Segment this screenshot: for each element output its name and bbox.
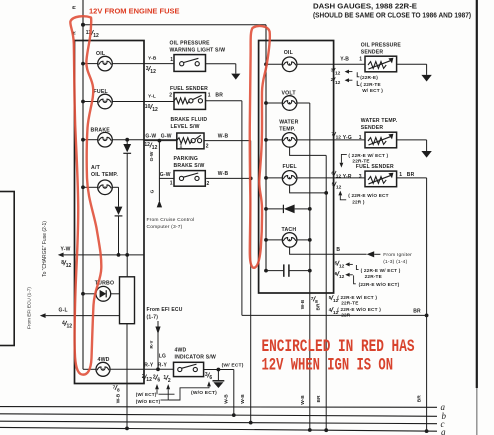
svg-text:OIL: OIL (284, 50, 294, 56)
gauge FUEL (right cluster) (282, 164, 297, 185)
svg-text:OIL: OIL (96, 51, 106, 57)
arrow from cruise control computer (157, 200, 162, 207)
wire bus to oil gauge (83, 63, 98, 65)
svg-text:4WD: 4WD (175, 347, 187, 353)
wire water temp sender to ground (397, 140, 427, 151)
bus line b (0, 411, 447, 421)
node bus-oil (81, 62, 85, 66)
wire (W/O ECT) option arrow to pin 1/2 (161, 384, 171, 400)
svg-text:12: 12 (335, 80, 341, 86)
svg-text:SENDER: SENDER (361, 50, 384, 56)
svg-text:12: 12 (336, 174, 342, 180)
svg-text:R-Y: R-Y (149, 340, 155, 349)
gauge OIL (right cluster) (282, 50, 297, 72)
svg-text:g: g (441, 427, 446, 435)
gauge VOLT (282, 91, 297, 111)
label G rotated (150, 189, 156, 193)
pin label 2/12 (142, 374, 152, 383)
pin label 2/12 with 22R-TE W/ ECT (331, 77, 384, 93)
svg-text:(W/O ECT): (W/O ECT) (136, 399, 161, 404)
svg-text:12: 12 (144, 142, 150, 148)
svg-text:1: 1 (399, 172, 402, 178)
svg-text:2: 2 (207, 181, 210, 187)
label W-B (volt lead) (300, 395, 306, 405)
svg-text:12: 12 (67, 324, 73, 330)
page border right edge (476, 0, 478, 435)
label Y-B (148, 55, 157, 61)
label G-W (parking) (160, 172, 171, 178)
node bus-fuel (right) (264, 176, 268, 180)
svg-text:G: G (150, 189, 156, 193)
svg-text:BR: BR (417, 395, 423, 402)
svg-text:(W/ ECT): (W/ ECT) (136, 392, 157, 397)
svg-text:22R ): 22R ) (352, 199, 365, 204)
svg-text:(1-3) (1-4): (1-3) (1-4) (383, 259, 407, 265)
label (W/O ECT) right (191, 390, 217, 396)
svg-text:6: 6 (209, 375, 212, 381)
svg-text:W/ ECT ): W/ ECT ) (362, 88, 383, 93)
label Y-W (61, 247, 71, 253)
svg-text:( 22R-E W/ ECT ): ( 22R-E W/ ECT ) (348, 153, 388, 158)
svg-text:( 22R-E W/ ECT ): ( 22R-E W/ ECT ) (337, 295, 377, 300)
svg-text:1: 1 (170, 181, 173, 187)
svg-text:R-Y: R-Y (158, 363, 168, 369)
svg-text:DASH GAUGES, 1988 22R-E: DASH GAUGES, 1988 22R-E (313, 4, 417, 11)
note 22R-E W/ ECT 22R-TE (igniter) (361, 268, 401, 279)
gauge OIL (96, 51, 112, 71)
svg-text:W-B: W-B (300, 395, 306, 405)
wire bus to fuel gauge (83, 101, 98, 103)
svg-text:R: R (72, 5, 78, 9)
red label 12V FROM ENGINE FUSE (89, 6, 180, 15)
svg-text:TEMP.: TEMP. (279, 127, 296, 133)
switch OIL PRESSURE WARNING LIGHT S/W (170, 40, 226, 71)
svg-text:( 22R-E W/ ECT ): ( 22R-E W/ ECT ) (361, 268, 401, 273)
svg-text:10: 10 (145, 104, 151, 110)
svg-text:22R-TE: 22R-TE (365, 274, 382, 279)
svg-text:SENDER: SENDER (361, 125, 384, 131)
node parking W-B on bus c (249, 421, 253, 425)
svg-text:BRAKE S/W: BRAKE S/W (174, 163, 205, 169)
label From EFI ECU (1-7) horizontal (147, 307, 183, 320)
wire water temp gauge bottom branch (290, 147, 327, 430)
ground (oil pressure warning switch) (231, 74, 240, 80)
node Y-W / D2 branch (117, 253, 121, 257)
node bus-brake (81, 138, 85, 142)
svg-text:BR: BR (413, 308, 421, 314)
svg-text:LG: LG (159, 354, 166, 360)
svg-text:W-B: W-B (240, 394, 246, 404)
red note ENCIRCLED line 1 (262, 337, 415, 357)
label (W/ ECT) left (136, 392, 157, 397)
svg-text:BR: BR (407, 172, 415, 178)
svg-text:12: 12 (93, 33, 99, 39)
pin label 3/12 with (22R-E) (331, 68, 379, 80)
label BR (sender lead, bottom) (417, 395, 423, 402)
sender OIL PRESSURE SENDER (340, 43, 401, 72)
arrow from igniter (367, 251, 381, 257)
svg-text:Computer (3-7): Computer (3-7) (147, 224, 183, 230)
svg-text:12V FROM ENGINE FUSE: 12V FROM ENGINE FUSE (89, 6, 180, 15)
node bus-capacitor (264, 269, 268, 273)
label From Cruise Control Computer (3-7) (147, 217, 195, 230)
label BR below right box (316, 303, 322, 310)
svg-text:TACH: TACH (282, 227, 297, 233)
wire 4WD output down to bus b (233, 370, 235, 416)
label BR (right box lead) (316, 395, 322, 402)
svg-text:( 22R-E W/O ECT ): ( 22R-E W/O ECT ) (337, 307, 381, 312)
svg-text:FUEL: FUEL (94, 89, 109, 95)
svg-text:Y-B: Y-B (340, 56, 349, 62)
svg-text:1: 1 (208, 93, 211, 99)
svg-text:2: 2 (168, 378, 171, 384)
svg-text:FUEL: FUEL (283, 164, 298, 170)
wire bus to fuel gauge (right) (266, 177, 282, 179)
node BR lead on bus g (324, 428, 328, 432)
wire D1 branch down to resistor block (126, 255, 128, 277)
svg-text:12: 12 (152, 145, 158, 151)
svg-text:1: 1 (170, 57, 173, 63)
label (W/O ECT) left (136, 399, 161, 404)
pin label 8/12 (61, 260, 71, 269)
label R (upper) (72, 5, 78, 9)
red note ENCIRCLED line 2 (262, 356, 394, 376)
wire G-W into brake fluid switch (144, 140, 177, 142)
svg-text:(22R-E W/O ECT): (22R-E W/O ECT) (359, 282, 400, 287)
svg-text:(22R-E): (22R-E) (360, 75, 378, 80)
pin label 5/12 (fuel) (332, 181, 342, 190)
wire bus to A/T oil temp gauge (83, 186, 98, 188)
svg-text:2: 2 (206, 143, 209, 149)
wire bus corner to 4WD gauge (83, 368, 96, 370)
wire G-L from EFI ECU (40, 313, 120, 318)
svg-text:G-W: G-W (160, 172, 171, 178)
node bus-fuel (81, 100, 85, 104)
pin label 12/12 (144, 142, 157, 151)
svg-text:BRAKE: BRAKE (91, 127, 111, 133)
label From EFI ECU (1-7) rotated (27, 287, 32, 329)
switch FUEL SENDER (middle) (169, 86, 223, 109)
node bus-atoiltemp (81, 185, 85, 189)
svg-text:12V WHEN IGN IS ON: 12V WHEN IGN IS ON (262, 356, 394, 376)
svg-text:PARKING: PARKING (174, 156, 199, 162)
svg-text:(1-7): (1-7) (147, 314, 159, 320)
wire (W/O ECT) option to pin 3/6 (168, 381, 211, 400)
wire volt gauge to W-B down lead (297, 103, 310, 430)
svg-text:WATER: WATER (279, 120, 298, 126)
sender WATER TEMP SENDER (331, 118, 398, 148)
svg-text:4WD: 4WD (98, 357, 110, 363)
svg-text:Y-L: Y-L (148, 93, 156, 99)
node BR junction (425, 314, 429, 318)
gauge 4WD (96, 357, 110, 377)
wire bus to turbo lamp (83, 293, 96, 295)
svg-text:Y-G: Y-G (343, 135, 352, 141)
gauge FUEL (left cluster) (94, 89, 113, 109)
svg-text:12: 12 (339, 263, 345, 269)
svg-text:G-W: G-W (145, 133, 156, 139)
wire bus to volt gauge (266, 102, 282, 104)
svg-text:BR: BR (215, 93, 223, 99)
wire (W/ ECT) option arrow to pin 2/6 (155, 384, 174, 394)
svg-text:(W/ ECT): (W/ ECT) (222, 362, 244, 368)
pin label 5/12 with 22R-E W/ ECT (below box) (329, 295, 378, 306)
node diode-to-volt-lead (308, 207, 312, 211)
wire resistor block bottom stub to ground bus g (126, 324, 128, 429)
note 22R-E W/ ECT 22R-TE (water temp) (340, 153, 389, 168)
ground (water temp sender) (421, 151, 431, 158)
label G-W rotated (149, 151, 155, 161)
gauge A/T OIL TEMP (91, 165, 118, 195)
label R-Y rotated (149, 340, 155, 349)
wire R-Y from EFI ECU down (155, 321, 160, 369)
svg-text:WATER TEMP.: WATER TEMP. (361, 118, 398, 124)
svg-text:W-B: W-B (224, 394, 230, 404)
svg-text:12: 12 (336, 135, 342, 141)
pin label 7/8 (left) (113, 385, 120, 394)
label B (tach wire) (336, 247, 340, 253)
note 22R-E W/O ECT (igniter) (359, 282, 400, 287)
pin label 11/12 (86, 30, 99, 39)
svg-text:VOLT: VOLT (282, 91, 297, 97)
node parking W-B junction (249, 177, 253, 181)
node volt lead on bus g (308, 428, 312, 432)
wire oil warning switch to ground (206, 64, 236, 74)
diode D1 (brake row, cathode down) (123, 140, 131, 255)
pin label 6/12 (igniter) (335, 271, 356, 284)
wire R-Y 4WD gauge to indicator switch (110, 368, 174, 370)
resistor block (gauge voltage limiter) (120, 277, 135, 324)
svg-text:BR: BR (316, 303, 322, 310)
wire oil pressure sender to ground (397, 64, 427, 75)
svg-text:OIL TEMP.: OIL TEMP. (91, 172, 118, 178)
svg-text:1: 1 (180, 143, 183, 149)
svg-text:R-Y: R-Y (144, 363, 154, 369)
sender FUEL SENDER (tank) (331, 164, 414, 187)
capacitor C1 (tach filter) (266, 264, 310, 276)
svg-text:Y-R: Y-R (343, 174, 352, 180)
svg-text:BRAKE FLUID: BRAKE FLUID (171, 117, 208, 123)
svg-text:To “CHARGE” Fuse (2-1): To “CHARGE” Fuse (2-1) (42, 221, 48, 277)
svg-text:From EFI ECU (1-7): From EFI ECU (1-7) (27, 287, 32, 329)
wire parking brake switch input (159, 177, 174, 179)
svg-text:W-B: W-B (218, 133, 229, 139)
svg-text:1: 1 (359, 135, 362, 141)
node 12V junction (81, 23, 85, 27)
indicator lamp TURBO (95, 281, 114, 302)
bus line a (0, 402, 446, 412)
pin label 5/12 (igniter) (335, 260, 359, 269)
node resistor stub on bus g (125, 427, 129, 431)
red trace around left 12V bus (70, 16, 101, 374)
label W-B (4WD lead) (224, 394, 230, 404)
svg-text:(W/O ECT): (W/O ECT) (191, 390, 217, 396)
node tach-to-volt-lead (308, 238, 312, 242)
label W-B (parking lead) (240, 394, 246, 404)
wire Y-W to charge fuse (58, 253, 144, 258)
svg-text:W-B: W-B (218, 171, 229, 177)
label To CHARGE Fuse (2-1) (42, 221, 48, 277)
svg-text:B: B (336, 247, 340, 253)
label W-B (parking) (218, 171, 229, 177)
pin label 1/2 (163, 375, 171, 384)
label BR (right) (413, 308, 421, 314)
svg-text:FUEL SENDER: FUEL SENDER (356, 164, 394, 170)
pin label 7/8 (right box) (311, 296, 318, 305)
gauge TACH (282, 227, 297, 247)
wire Y-B oil gauge to oil pressure sender (297, 63, 365, 65)
svg-text:A/T: A/T (91, 165, 101, 171)
label Y-L (148, 93, 156, 99)
wire turbo lamp to resistor block (111, 293, 120, 295)
node G-W branch (158, 139, 162, 143)
svg-text:Y-W: Y-W (61, 247, 71, 253)
wire fuel gauge bottom branch (290, 185, 327, 193)
svg-text:12: 12 (339, 274, 345, 280)
svg-text:8: 8 (117, 388, 120, 394)
wire bus to tach gauge (266, 239, 282, 241)
label G-W (left of box edge) (145, 133, 156, 139)
switch BRAKE FLUID LEVEL S/W (171, 117, 209, 149)
right cluster box outline (259, 41, 334, 294)
node brake diode tap (125, 138, 129, 142)
wire R 12V vertical from engine fuse (82, 0, 84, 41)
gauge WATER TEMP (279, 120, 298, 148)
wire G-W vertical branch (158, 141, 160, 201)
wire B tach to igniter (290, 247, 367, 254)
svg-text:WARNING LIGHT S/W: WARNING LIGHT S/W (170, 47, 226, 53)
svg-text:12: 12 (335, 71, 341, 77)
pin label 3/12 (146, 66, 156, 75)
svg-text:(SHOULD BE SAME OR CLOSE TO 19: (SHOULD BE SAME OR CLOSE TO 1986 AND 198… (313, 12, 471, 19)
node bus-watertemp (264, 138, 268, 142)
node bus-turbo (81, 292, 85, 296)
wire Y-L fuel gauge to fuel sender switch (112, 101, 174, 103)
svg-text:22R-TE: 22R-TE (341, 301, 358, 306)
svg-text:12: 12 (152, 107, 158, 113)
svg-text:12: 12 (150, 69, 156, 75)
node 4WD ground junction (217, 368, 221, 372)
pin label 4/12 with 22R-E W/O ECT (below box) (329, 307, 382, 318)
switch PARKING BRAKE S/W (170, 156, 210, 187)
label G-L (59, 307, 68, 313)
ground (4WD indicator switch) (213, 370, 225, 389)
wire 12V top feed to right cluster (83, 24, 266, 26)
ground (oil pressure sender) (421, 75, 431, 82)
note 22R-E W/O ECT 22R (fuel) (338, 191, 388, 205)
svg-text:From Cruise Control: From Cruise Control (147, 217, 195, 223)
gauge BRAKE (91, 127, 113, 147)
diode D2 (A/T oil temp branch, cathode down) (112, 187, 122, 255)
label LG / R-Y (158, 354, 168, 369)
label W-B (brake fluid) (218, 133, 229, 139)
svg-text:LEVEL S/W: LEVEL S/W (171, 124, 200, 130)
left cluster box outline (75, 41, 145, 384)
svg-text:INDICATOR S/W: INDICATOR S/W (175, 354, 216, 360)
wire Y-G water temp gauge to sender (297, 139, 365, 141)
switch 4WD INDICATOR S/W (174, 347, 216, 381)
bus line g (0, 427, 446, 435)
node capacitor-to-volt-lead (308, 269, 312, 273)
wire 12V bus right cluster (265, 25, 267, 271)
node bus-volt (264, 101, 268, 105)
svg-text:OIL PRESSURE: OIL PRESSURE (170, 40, 211, 46)
svg-text:ENCIRCLED IN RED HAS: ENCIRCLED IN RED HAS (262, 337, 415, 357)
svg-text:G-W: G-W (161, 133, 172, 139)
wire W-B brake fluid switch down to bus c (204, 141, 251, 423)
node R-Y junction on 4WD row (156, 367, 160, 371)
node 4WD W-B on bus b (232, 413, 236, 417)
label R (lower) (72, 31, 78, 35)
title text (313, 4, 471, 20)
wire bus to oil gauge (right) (266, 63, 282, 65)
wire bus to water temp gauge (266, 139, 282, 141)
node sender BR on bus g (425, 429, 429, 433)
wire BR horizontal collector (242, 314, 427, 316)
svg-text:Y-B: Y-B (148, 55, 157, 61)
wire tach gauge right (297, 239, 310, 241)
svg-text:G-W: G-W (149, 151, 155, 161)
svg-text:1: 1 (359, 56, 362, 62)
node fuel branch junction (324, 191, 328, 195)
svg-text:FUEL SENDER: FUEL SENDER (170, 86, 208, 92)
node bus-oil (right) (264, 62, 268, 66)
wire BR fuel sender down (397, 178, 427, 431)
svg-text:W-B: W-B (300, 299, 306, 309)
label W-B below right box (300, 299, 306, 309)
diode D3 (right cluster, cathode left) (266, 205, 310, 214)
pin label 4/12 (62, 321, 72, 330)
bus line c (0, 419, 445, 429)
svg-text:W-B: W-B (115, 393, 121, 403)
wire G-W brake gauge to brake fluid switch (112, 139, 177, 141)
svg-text:12: 12 (336, 184, 342, 190)
node Y-W / D1 branch (125, 253, 129, 257)
wire W-B parking brake switch (205, 177, 250, 179)
label R-Y (row) (144, 363, 154, 369)
wire Y-B oil gauge to warning switch (112, 63, 174, 65)
node bus-diode (264, 207, 268, 211)
label From Igniter (1-3)(1-4) (383, 252, 412, 265)
wire bus to brake gauge (83, 139, 98, 141)
svg-text:From Igniter: From Igniter (383, 252, 412, 258)
svg-text:( 22R-TE: ( 22R-TE (360, 82, 381, 87)
label W-B (left box lead) (115, 393, 121, 403)
svg-text:6: 6 (157, 377, 160, 383)
pin label 10/12 (145, 104, 158, 113)
svg-text:3: 3 (359, 174, 362, 180)
red trace around right 12V bus (250, 26, 270, 268)
wire 12V bus left cluster (82, 41, 84, 369)
svg-text:( 22R-E W/O ECT: ( 22R-E W/O ECT (348, 193, 389, 198)
svg-text:OIL PRESSURE: OIL PRESSURE (361, 43, 402, 49)
node bus-tach (264, 238, 268, 242)
left edge module box (0, 192, 14, 346)
svg-text:2: 2 (169, 93, 172, 99)
svg-text:22R-TE: 22R-TE (352, 158, 369, 163)
svg-text:12: 12 (66, 263, 72, 269)
label G-W (at switch) (161, 133, 172, 139)
wire Y-R fuel gauge to fuel sender (297, 177, 365, 179)
wire BR fuel sender to BR bus (206, 101, 242, 316)
pin label 2/6 (153, 374, 161, 383)
svg-text:From EFI ECU: From EFI ECU (147, 307, 183, 313)
svg-text:BR: BR (316, 395, 322, 402)
svg-text:G-L: G-L (59, 307, 68, 313)
label (W/ ECT) right (222, 362, 244, 368)
svg-text:12: 12 (146, 377, 152, 383)
wire 4WD switch output (204, 369, 234, 371)
